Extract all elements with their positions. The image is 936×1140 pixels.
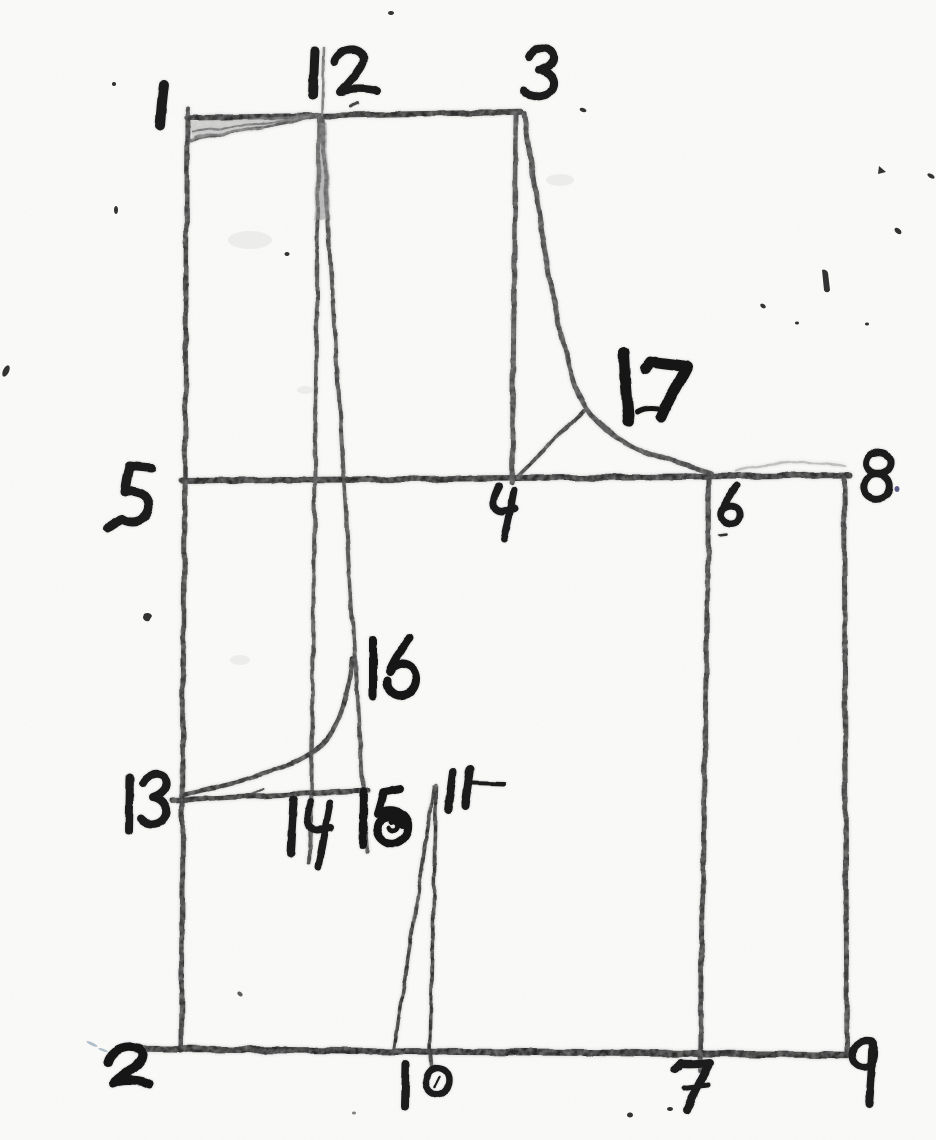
label 13 (129, 774, 167, 831)
wire: horizontal bust line 5-8 (181, 475, 850, 481)
wire: top line 1-12-3 (186, 112, 521, 118)
label 9 (852, 1040, 875, 1104)
labels group (108, 48, 891, 1110)
label 2 (108, 1047, 149, 1084)
label 15 (363, 789, 408, 845)
label 3 (524, 48, 554, 97)
small tick on 13-15 line (253, 789, 263, 794)
label 17 (624, 352, 687, 421)
dart leg 11-10 right (430, 786, 436, 1066)
label 1 (160, 85, 164, 126)
shading wedge between top line and shoulder line (188, 114, 320, 140)
dart leg 11-10 left (394, 788, 434, 1049)
faint paper smudges (228, 174, 574, 665)
label 10 (405, 1064, 450, 1106)
wire: right vertical 8-9 (844, 477, 847, 1054)
corner spur at 1 (187, 108, 188, 118)
label 5 (108, 466, 152, 528)
wire: vertical 3-4 (512, 114, 516, 483)
label 11 with dash (448, 769, 504, 810)
wire: bottom line 2-9 (137, 1049, 851, 1055)
label 6 (721, 485, 740, 523)
wire: left vertical 1-2 (181, 116, 187, 1051)
label 4 (493, 486, 515, 539)
wire: shoulder slope line 1-12 (190, 116, 320, 140)
label 8 (864, 452, 891, 499)
tick under 12 (351, 103, 358, 106)
label 12 (313, 49, 377, 95)
wedge streaks (192, 117, 310, 137)
label 14 (291, 800, 331, 867)
armhole curve from 3 to 6 (524, 114, 712, 473)
label 16 (373, 638, 416, 697)
dart shading near apex (314, 122, 331, 220)
label 7 (675, 1063, 710, 1110)
notch line from 4 to curve (516, 411, 583, 478)
dart right leg 12-15 (322, 117, 367, 852)
dart left leg 12-14 (309, 117, 319, 863)
wire: vertical 6-7 (700, 478, 709, 1070)
wire: horizontal line 13-15 (172, 791, 368, 800)
hip curve 13 to 16 (186, 658, 352, 794)
faint curve continuation 6 to 8 (736, 462, 846, 471)
dart centerline extension above 12 (321, 48, 324, 142)
